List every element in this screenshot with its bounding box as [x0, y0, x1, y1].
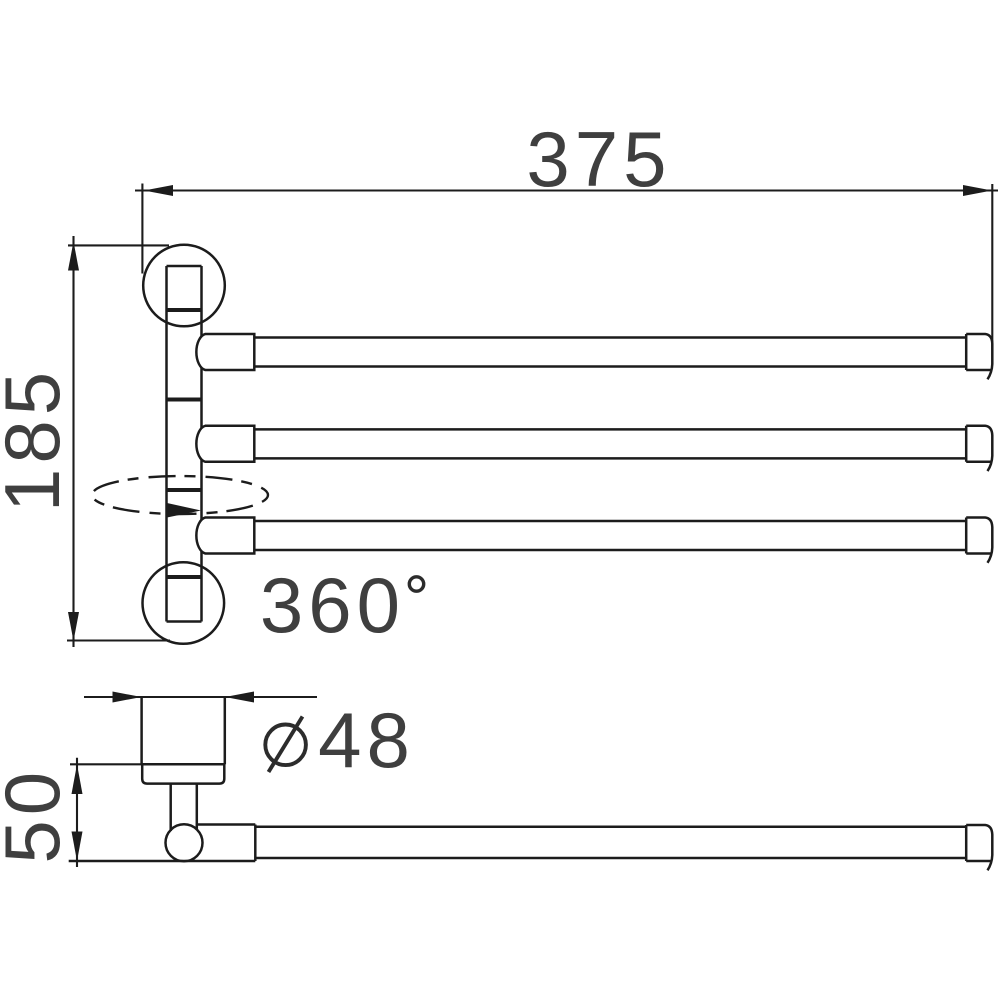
svg-text:50: 50: [0, 767, 76, 864]
side view stem: [171, 784, 197, 831]
degree symbol: [409, 577, 423, 591]
rotation arrowhead: [167, 503, 201, 518]
side view pivot circle: [166, 824, 203, 861]
side view sleeve: [197, 825, 256, 862]
arm 3 end cap: [966, 518, 992, 563]
arm 2 hub block: [196, 426, 254, 462]
arm 1 bar: [254, 338, 966, 367]
diameter symbol: [265, 717, 306, 773]
post joint line 1: [167, 308, 202, 312]
side view end cap: [966, 825, 992, 870]
rotation ellipse (dash-dot): [92, 476, 268, 514]
extension line top of 50: [70, 763, 225, 765]
arm 1 end cap: [966, 334, 992, 379]
side view bar: [255, 827, 966, 858]
dimension line 375 (top): [135, 185, 998, 196]
svg-text:360: 360: [260, 561, 405, 649]
wall escutcheon circle bottom: [143, 562, 225, 644]
extension line top of 185: [68, 244, 169, 246]
extension line bottom of 185: [67, 639, 170, 641]
svg-text:375: 375: [526, 115, 671, 203]
dimension line 185 (left): [68, 236, 79, 647]
extension + sleeve bottom line: [69, 860, 256, 863]
svg-text:48: 48: [318, 696, 415, 784]
arm 3 hub block: [196, 518, 254, 554]
arm 2 end cap: [966, 426, 992, 471]
side view base plate: [142, 764, 224, 783]
post body: [167, 266, 202, 622]
svg-text:185: 185: [0, 367, 76, 512]
extension line right of 375: [991, 184, 993, 350]
wall escutcheon circle top: [143, 245, 225, 327]
post joint line 3: [167, 488, 202, 492]
arm 2 bar: [254, 429, 966, 458]
extension line left of 375: [141, 184, 143, 274]
dimension line 50 (bottom left): [72, 758, 83, 867]
post joint line 2: [167, 398, 202, 402]
post joint line 4: [167, 575, 202, 579]
side view square flange: [142, 697, 225, 764]
arm 3 bar: [254, 521, 966, 550]
arm 1 hub block: [196, 334, 254, 370]
dimension line 48 (bottom view): [84, 692, 317, 703]
